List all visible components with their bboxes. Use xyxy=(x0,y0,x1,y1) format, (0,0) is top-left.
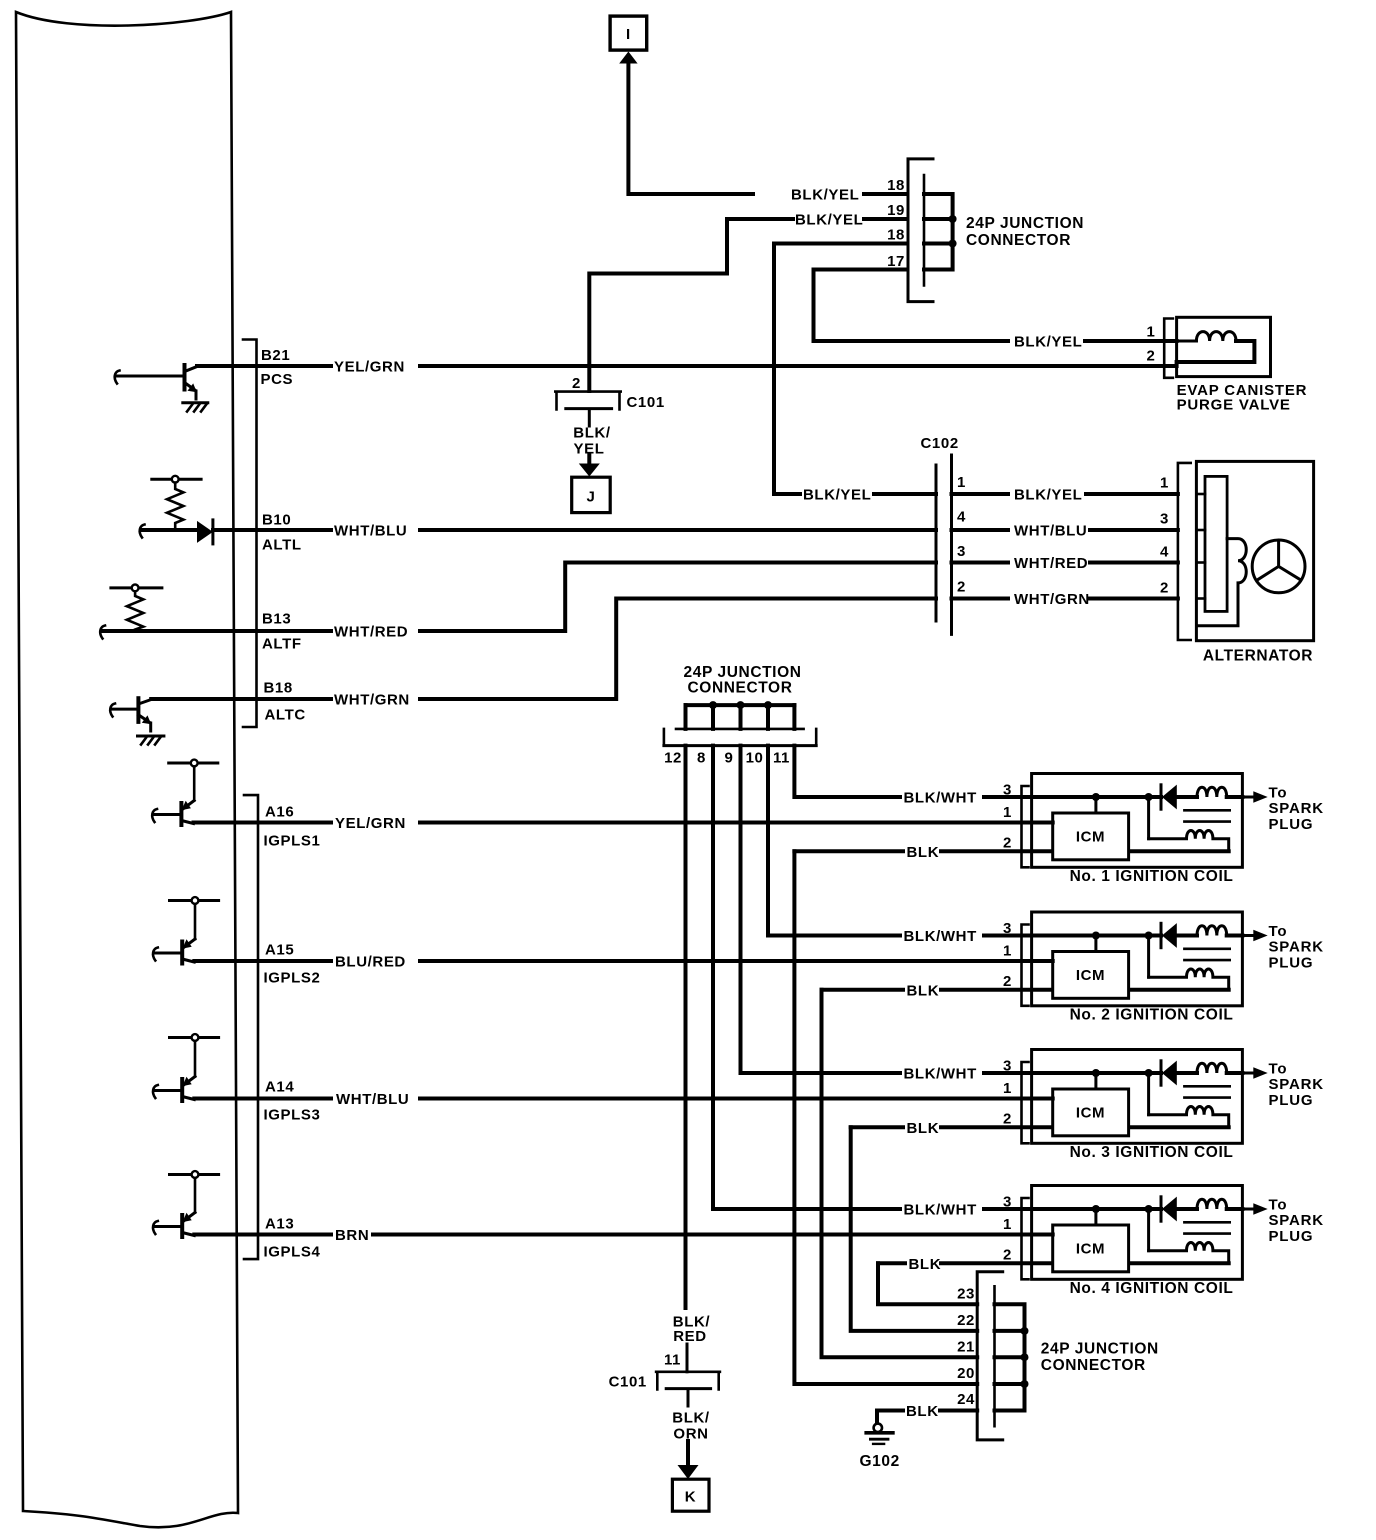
label To SPARK PLUG (No.1) xyxy=(1269,785,1324,834)
diode (No.4 ignition coil) xyxy=(1161,1197,1197,1222)
wire BLK/YEL net I to 24P junction pin 18 (row 1) xyxy=(628,63,907,204)
svg-text:IGPLS2: IGPLS2 xyxy=(264,970,321,987)
wire WHT/RED C102 to alternator pin 4 xyxy=(952,555,1178,572)
wire WHT/GRN net B18-ALTC to C102 pin 2 xyxy=(151,599,936,709)
transistor Q2 (ECM driver for B18 ALTC) xyxy=(110,698,151,731)
svg-text:9: 9 xyxy=(725,750,734,767)
svg-text:1: 1 xyxy=(1003,1216,1012,1233)
svg-text:BLK/: BLK/ xyxy=(573,425,611,442)
svg-text:BLK/WHT: BLK/WHT xyxy=(904,928,977,945)
svg-text:PLUG: PLUG xyxy=(1269,955,1314,972)
wire BLK/YEL C101 to J xyxy=(573,410,611,477)
primary winding (No.1 ignition coil) xyxy=(1197,787,1242,797)
svg-text:23: 23 xyxy=(957,1286,975,1303)
svg-text:BLK: BLK xyxy=(907,982,940,999)
EVAP valve pin labels 1/2 xyxy=(1147,324,1156,365)
svg-text:BLU/RED: BLU/RED xyxy=(335,954,406,971)
ground (Q2 emitter) xyxy=(138,736,164,745)
core lines (No.1 ignition coil) xyxy=(1184,810,1229,821)
ignition coil No.1 connector bracket xyxy=(1022,786,1029,867)
label ALTERNATOR xyxy=(1203,648,1313,665)
svg-text:C101: C101 xyxy=(609,1374,647,1391)
svg-text:10: 10 xyxy=(746,750,764,767)
wire No.3 coil pin 3 internal feed with junction dots xyxy=(984,1069,1161,1115)
svg-text:2: 2 xyxy=(1147,348,1156,365)
wire WHT/GRN C102 to alternator pin 2 xyxy=(952,591,1178,608)
diode (No.3 ignition coil) xyxy=(1161,1061,1197,1086)
wire No.1 coil pin 1 into ICM xyxy=(1032,821,1053,825)
svg-text:SPARK: SPARK xyxy=(1269,1212,1324,1229)
pin labels 3/1/2 (No.3 ignition coil) xyxy=(1003,1058,1012,1128)
svg-text:2: 2 xyxy=(1003,1246,1012,1263)
primary winding (No.3 ignition coil) xyxy=(1197,1063,1242,1073)
svg-text:3: 3 xyxy=(957,543,966,560)
svg-text:ORN: ORN xyxy=(673,1426,708,1443)
EVAP canister purge valve body with solenoid coil xyxy=(1177,317,1271,376)
svg-text:19: 19 xyxy=(887,202,905,219)
spark output arrow (No.4 ignition coil) xyxy=(1242,1203,1267,1215)
svg-text:No. 4 IGNITION COIL: No. 4 IGNITION COIL xyxy=(1070,1280,1234,1297)
svg-text:J: J xyxy=(587,489,596,506)
wire No.2 coil pin 3 internal feed with junction dots xyxy=(984,932,1161,978)
label 24P JUNCTION CONNECTOR (top) xyxy=(966,215,1084,249)
pin label B18 / ALTC xyxy=(264,680,306,724)
svg-text:BLK/YEL: BLK/YEL xyxy=(803,487,871,504)
diode (No.2 ignition coil) xyxy=(1161,923,1197,948)
connector symbol I (off-page arrow to I) xyxy=(610,16,647,63)
pin labels 18/19/18/17 (top 24P junction) xyxy=(887,177,905,270)
pin labels 3/1/2 (No.1 ignition coil) xyxy=(1003,782,1012,852)
alternator generator symbol (circle with Y spokes) xyxy=(1252,540,1305,593)
transistor Q6 (ECM driver for A13 IGPLS4) with supply rail xyxy=(153,1171,219,1237)
svg-text:WHT/RED: WHT/RED xyxy=(334,624,408,641)
svg-text:2: 2 xyxy=(572,375,581,392)
wire pin 12 to C101 pin 11 (BLK/RED) xyxy=(684,746,688,1308)
svg-text:To: To xyxy=(1269,1197,1288,1214)
ICM module (No.1 ignition coil) xyxy=(1053,813,1129,860)
label To SPARK PLUG (No.4) xyxy=(1269,1197,1324,1246)
ignition coil No.4 case xyxy=(1032,1186,1243,1280)
pin labels 3/1/2 (No.4 ignition coil) xyxy=(1003,1194,1012,1264)
resistor R2 (ECM pull-up at B13) xyxy=(111,585,162,630)
svg-text:BLK/: BLK/ xyxy=(672,1410,710,1427)
ignition coil No.3 connector bracket xyxy=(1022,1062,1029,1143)
svg-text:C102: C102 xyxy=(921,435,959,452)
EVAP canister purge valve connector bracket xyxy=(1164,319,1173,378)
wire BLK/WHT net pin 11 to No.1 coil pin 3 xyxy=(794,746,976,807)
svg-text:B18: B18 xyxy=(264,680,293,697)
connector symbol J (off-page) xyxy=(572,477,611,512)
ECM connector bracket (B pins) xyxy=(243,340,257,728)
label 24P JUNCTION CONNECTOR (middle) xyxy=(684,664,802,697)
svg-text:2: 2 xyxy=(1160,580,1169,597)
ECM module body (torn-edge outline) xyxy=(16,12,238,1527)
svg-text:B13: B13 xyxy=(262,611,291,628)
secondary winding (No.4 ignition coil) xyxy=(1129,1242,1229,1263)
svg-text:ALTC: ALTC xyxy=(265,707,306,724)
spark output arrow (No.1 ignition coil) xyxy=(1242,791,1267,803)
wire BLK/YEL C102 to alternator pin 1 xyxy=(952,487,1178,504)
label No. 4 IGNITION COIL xyxy=(1070,1280,1234,1297)
ICM module (No.3 ignition coil) xyxy=(1053,1089,1129,1136)
connector symbol K (off-page) xyxy=(672,1479,709,1511)
svg-text:4: 4 xyxy=(957,509,966,526)
svg-text:BLK/WHT: BLK/WHT xyxy=(904,790,977,807)
label No. 3 IGNITION COIL xyxy=(1070,1144,1234,1161)
svg-text:2: 2 xyxy=(1003,973,1012,990)
wire BLK/ORN C101 to K xyxy=(672,1389,710,1479)
wire WHT/BLU net A14-IGPLS3 to No.3 coil pin 1 xyxy=(194,1091,1031,1108)
svg-text:BLK: BLK xyxy=(909,1256,942,1273)
svg-text:24P JUNCTION: 24P JUNCTION xyxy=(966,215,1084,232)
svg-text:SPARK: SPARK xyxy=(1269,1076,1324,1093)
svg-text:BLK: BLK xyxy=(907,844,940,861)
svg-text:BLK/YEL: BLK/YEL xyxy=(1014,334,1082,351)
svg-text:WHT/BLU: WHT/BLU xyxy=(1014,523,1087,540)
pin label B10 / ALTL xyxy=(262,512,302,554)
label To SPARK PLUG (No.2) xyxy=(1269,923,1324,972)
pin label A15 / IGPLS2 xyxy=(264,942,321,987)
label BLK/RED (pin 12 wire) xyxy=(673,1314,711,1346)
svg-text:ALTERNATOR: ALTERNATOR xyxy=(1203,648,1313,665)
svg-text:PLUG: PLUG xyxy=(1269,1092,1314,1109)
svg-text:8: 8 xyxy=(697,750,706,767)
24P junction connector (middle) body xyxy=(664,729,816,746)
diode (No.1 ignition coil) xyxy=(1161,785,1197,810)
wire BLK/YEL net 24P junction pin 19 to C101 pin 2 xyxy=(589,212,907,392)
spark output arrow (No.3 ignition coil) xyxy=(1242,1067,1267,1079)
ignition coil No.3 case xyxy=(1032,1050,1243,1144)
ignition coil No.1 case xyxy=(1032,774,1243,868)
svg-text:A13: A13 xyxy=(265,1216,294,1233)
transistor Q3 (ECM driver for A16 IGPLS1) with supply rail xyxy=(152,760,218,825)
svg-text:A16: A16 xyxy=(265,804,294,821)
svg-text:SPARK: SPARK xyxy=(1269,800,1324,817)
svg-text:24: 24 xyxy=(957,1391,975,1408)
wire BLU/RED net A15-IGPLS2 to No.2 coil pin 1 xyxy=(194,954,1031,971)
inline connector C102 xyxy=(921,435,959,634)
wire No.2 coil pin 1 into ICM xyxy=(1032,959,1053,963)
svg-text:2: 2 xyxy=(1003,1110,1012,1127)
pin label A14 / IGPLS3 xyxy=(264,1079,321,1124)
primary winding (No.4 ignition coil) xyxy=(1197,1199,1242,1209)
svg-text:2: 2 xyxy=(957,579,966,596)
wire BLK net No.1 coil pin 2 to bottom junction pin 20 xyxy=(794,844,1052,1384)
svg-text:21: 21 xyxy=(957,1339,975,1356)
svg-text:WHT/BLU: WHT/BLU xyxy=(336,1091,409,1108)
svg-text:B21: B21 xyxy=(261,347,290,364)
wire No.4 coil pin 1 into ICM xyxy=(1032,1233,1053,1237)
wire BLK/WHT net pin 8 to No.4 coil pin 3 xyxy=(713,746,977,1219)
svg-text:18: 18 xyxy=(887,227,905,244)
pin label B21 / PCS xyxy=(261,347,294,388)
svg-text:2: 2 xyxy=(1003,834,1012,851)
wire BLK net No.3 coil pin 2 to bottom junction pin 22 xyxy=(851,1120,1053,1331)
alternator body xyxy=(1196,461,1313,640)
diode D1 (B10 line) xyxy=(197,520,213,544)
core lines (No.2 ignition coil) xyxy=(1184,949,1229,960)
alternator field coil xyxy=(1198,539,1246,626)
ignition coil No.2 case xyxy=(1032,912,1243,1006)
ICM module (No.2 ignition coil) xyxy=(1053,952,1129,999)
inline connector C101 pin 11 xyxy=(609,1372,720,1391)
svg-text:To: To xyxy=(1269,785,1288,802)
svg-text:17: 17 xyxy=(887,253,905,270)
resistor R1 (ECM pull-up at B10) xyxy=(152,476,201,530)
svg-text:B10: B10 xyxy=(262,512,291,529)
pin labels 1/4/3/2 (C102 left) xyxy=(957,474,966,596)
wire No.3 coil pin 1 into ICM xyxy=(1032,1097,1053,1101)
pin label A13 / IGPLS4 xyxy=(264,1216,321,1261)
svg-text:IGPLS3: IGPLS3 xyxy=(264,1107,321,1124)
svg-text:To: To xyxy=(1269,923,1288,940)
svg-text:IGPLS4: IGPLS4 xyxy=(264,1244,321,1261)
secondary winding (No.2 ignition coil) xyxy=(1129,969,1229,990)
svg-text:ALTL: ALTL xyxy=(262,537,302,554)
svg-text:12: 12 xyxy=(664,750,682,767)
svg-text:BLK: BLK xyxy=(906,1403,939,1420)
svg-text:No. 2 IGNITION COIL: No. 2 IGNITION COIL xyxy=(1070,1007,1234,1024)
svg-text:11: 11 xyxy=(664,1352,681,1369)
svg-text:PLUG: PLUG xyxy=(1269,816,1314,833)
svg-text:ICM: ICM xyxy=(1076,967,1105,984)
svg-text:K: K xyxy=(685,1489,696,1506)
secondary winding (No.1 ignition coil) xyxy=(1129,830,1229,851)
svg-text:ICM: ICM xyxy=(1076,1105,1105,1122)
ground (Q1 emitter) xyxy=(183,403,208,412)
svg-text:WHT/RED: WHT/RED xyxy=(1014,555,1088,572)
svg-text:3: 3 xyxy=(1160,511,1169,528)
svg-text:PLUG: PLUG xyxy=(1269,1228,1314,1245)
svg-text:YEL/GRN: YEL/GRN xyxy=(335,815,406,832)
svg-text:ALTF: ALTF xyxy=(262,636,302,653)
svg-text:G102: G102 xyxy=(860,1453,900,1470)
pin label 11 (C101) xyxy=(664,1344,687,1372)
wire BLK/YEL net 24P junction pin 18 (row 3) to C102 pin 1 xyxy=(774,244,936,504)
svg-text:IGPLS1: IGPLS1 xyxy=(264,833,321,850)
svg-text:22: 22 xyxy=(957,1312,975,1329)
svg-text:WHT/GRN: WHT/GRN xyxy=(334,692,410,709)
24P junction connector (top) body xyxy=(908,159,933,302)
label EVAP CANISTER PURGE VALVE xyxy=(1177,382,1308,414)
transistor Q4 (ECM driver for A15 IGPLS2) with supply rail xyxy=(153,897,219,963)
svg-text:18: 18 xyxy=(887,177,905,194)
secondary winding (No.3 ignition coil) xyxy=(1129,1106,1229,1127)
svg-text:ICM: ICM xyxy=(1076,829,1105,846)
wire B13 internal segment xyxy=(100,626,145,639)
svg-text:PURGE VALVE: PURGE VALVE xyxy=(1177,397,1291,414)
24P junction connector (bottom) body xyxy=(977,1272,1003,1440)
label No. 1 IGNITION COIL xyxy=(1070,868,1234,885)
svg-text:BRN: BRN xyxy=(335,1227,369,1244)
svg-text:1: 1 xyxy=(1147,324,1156,341)
svg-text:PCS: PCS xyxy=(261,371,294,388)
svg-text:1: 1 xyxy=(957,474,966,491)
wire BRN net A13-IGPLS4 to No.4 coil pin 1 xyxy=(194,1227,1031,1244)
wire YEL/GRN net A16-IGPLS1 to No.1 coil pin 1 xyxy=(194,815,1032,832)
pin labels 12/8/9/10/11 (middle 24P junction) xyxy=(664,750,790,767)
svg-text:BLK/YEL: BLK/YEL xyxy=(1014,487,1082,504)
label 24P JUNCTION CONNECTOR (bottom) xyxy=(1041,1341,1159,1375)
wire No.4 coil pin 3 internal feed with junction dots xyxy=(984,1205,1161,1251)
label No. 2 IGNITION COIL xyxy=(1070,1007,1234,1024)
spark output arrow (No.2 ignition coil) xyxy=(1242,930,1267,942)
svg-text:YEL/GRN: YEL/GRN xyxy=(334,359,405,376)
ICM module (No.4 ignition coil) xyxy=(1053,1225,1129,1272)
transistor Q5 (ECM driver for A14 IGPLS3) with supply rail xyxy=(153,1034,219,1101)
svg-text:1: 1 xyxy=(1003,804,1012,821)
svg-text:24P JUNCTION: 24P JUNCTION xyxy=(684,664,802,681)
svg-text:BLK/YEL: BLK/YEL xyxy=(795,212,863,229)
inline connector C101 pin 2 xyxy=(555,375,664,411)
svg-text:CONNECTOR: CONNECTOR xyxy=(966,232,1071,249)
wire BLK net G102 to bottom junction pin 24 xyxy=(877,1403,977,1423)
svg-text:BLK: BLK xyxy=(907,1120,940,1137)
svg-text:4: 4 xyxy=(1160,544,1169,561)
transistor Q1 (ECM driver for B21 PCS) xyxy=(115,365,197,399)
alternator connector bracket xyxy=(1178,463,1191,640)
svg-text:BLK/WHT: BLK/WHT xyxy=(904,1202,977,1219)
svg-text:BLK/YEL: BLK/YEL xyxy=(791,187,859,204)
svg-text:No. 1 IGNITION COIL: No. 1 IGNITION COIL xyxy=(1070,868,1234,885)
ECM connector bracket (A pins) xyxy=(244,795,258,1259)
ignition coil No.2 connector bracket xyxy=(1022,925,1029,1006)
wire WHT/BLU C102 to alternator pin 3 xyxy=(952,523,1178,540)
ground G102 xyxy=(860,1424,900,1470)
svg-text:SPARK: SPARK xyxy=(1269,939,1324,956)
wire YEL/GRN net B21-PCS to EVAP valve pin 2 xyxy=(197,359,1177,376)
svg-text:No. 3 IGNITION COIL: No. 3 IGNITION COIL xyxy=(1070,1144,1234,1161)
svg-text:CONNECTOR: CONNECTOR xyxy=(1041,1357,1146,1374)
svg-text:C101: C101 xyxy=(627,394,665,411)
svg-text:1: 1 xyxy=(1160,475,1169,492)
svg-text:ICM: ICM xyxy=(1076,1241,1105,1258)
svg-text:WHT/GRN: WHT/GRN xyxy=(1014,591,1090,608)
wire WHT/RED net B13-ALTF to C102 pin 3 xyxy=(145,563,936,641)
pin label B13 / ALTF xyxy=(262,611,302,653)
wire BLK net No.2 coil pin 2 to bottom junction pin 21 xyxy=(822,982,1053,1357)
svg-text:24P JUNCTION: 24P JUNCTION xyxy=(1041,1341,1159,1358)
svg-text:A14: A14 xyxy=(265,1079,294,1096)
svg-text:CONNECTOR: CONNECTOR xyxy=(688,680,793,697)
wire B10 internal segment xyxy=(140,525,198,538)
wire WHT/BLU net B10-ALTL to C102 pin 4 xyxy=(213,523,936,540)
svg-text:A15: A15 xyxy=(265,942,294,959)
24P junction connector (top) bus comb with junction dots xyxy=(924,194,957,270)
svg-text:1: 1 xyxy=(1003,1080,1012,1097)
svg-text:BLK/WHT: BLK/WHT xyxy=(904,1066,977,1083)
svg-text:11: 11 xyxy=(773,750,790,767)
primary winding (No.2 ignition coil) xyxy=(1197,926,1242,936)
24P junction connector (bottom) bus comb with junction dots xyxy=(995,1304,1029,1410)
svg-text:WHT/BLU: WHT/BLU xyxy=(334,523,407,540)
label To SPARK PLUG (No.3) xyxy=(1269,1061,1324,1110)
svg-text:20: 20 xyxy=(957,1365,975,1382)
pin label A16 / IGPLS1 xyxy=(264,804,321,850)
ignition coil No.4 connector bracket xyxy=(1022,1198,1029,1279)
core lines (No.3 ignition coil) xyxy=(1184,1086,1229,1097)
core lines (No.4 ignition coil) xyxy=(1184,1222,1229,1233)
pin labels 1/3/4/2 (alternator) xyxy=(1160,475,1169,597)
svg-text:RED: RED xyxy=(673,1328,706,1345)
svg-text:I: I xyxy=(626,26,631,43)
wire BLK/WHT net pin 9 to No.3 coil pin 3 xyxy=(741,746,977,1083)
24P junction connector (middle) bus comb with junction dots xyxy=(686,701,795,729)
wire BLK/YEL net 24P junction pin 17 to EVAP valve pin 1 xyxy=(814,270,1177,351)
svg-text:To: To xyxy=(1269,1061,1288,1078)
svg-text:1: 1 xyxy=(1003,943,1012,960)
wire BLK/WHT net pin 10 to No.2 coil pin 3 xyxy=(768,746,977,945)
pin labels 3/1/2 (No.2 ignition coil) xyxy=(1003,920,1012,990)
wire BLK net No.4 coil pin 2 to bottom junction pin 23 xyxy=(878,1256,1053,1304)
wire No.1 coil pin 3 internal feed with junction dots xyxy=(984,793,1161,839)
pin labels 23/22/21/20/24 (bottom 24P junction) xyxy=(957,1286,975,1409)
